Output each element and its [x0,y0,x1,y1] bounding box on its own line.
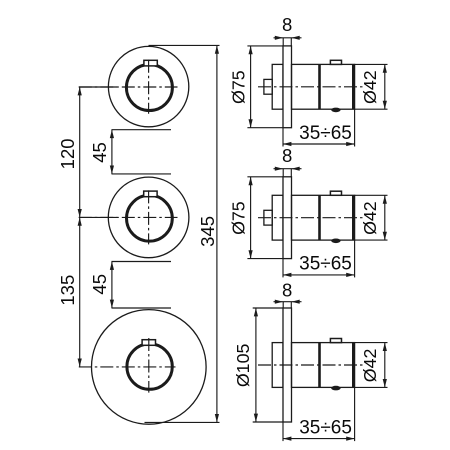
svg-text:8: 8 [282,145,292,166]
svg-text:Ø42: Ø42 [360,201,380,235]
svg-text:Ø75: Ø75 [229,201,249,235]
svg-text:35÷65: 35÷65 [299,123,352,144]
svg-text:345: 345 [197,216,218,247]
svg-text:35÷65: 35÷65 [299,417,352,438]
svg-text:Ø42: Ø42 [360,349,380,383]
svg-text:Ø75: Ø75 [229,70,249,104]
svg-text:45: 45 [89,142,110,163]
svg-text:8: 8 [282,14,292,35]
svg-text:35÷65: 35÷65 [299,254,352,275]
svg-text:135: 135 [57,275,78,306]
svg-text:8: 8 [282,279,292,300]
svg-text:Ø105: Ø105 [233,344,253,388]
svg-text:45: 45 [89,274,110,295]
svg-text:120: 120 [57,138,78,169]
svg-text:Ø42: Ø42 [360,70,380,104]
